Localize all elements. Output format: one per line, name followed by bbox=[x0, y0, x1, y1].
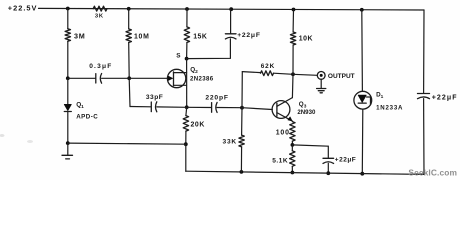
wire: Q1 cathode to ground junction bbox=[67, 112, 69, 144]
node: supply junction column2 bbox=[127, 7, 131, 11]
capacitor 33pF bbox=[146, 94, 163, 112]
resistor 62K bbox=[261, 63, 276, 76]
capacitor 0.3uF bbox=[89, 63, 112, 83]
wire: D1 column rail to diode bbox=[361, 10, 364, 92]
svg-text:2N2386: 2N2386 bbox=[190, 76, 214, 83]
node: 20K bottom / ground row junction bbox=[184, 142, 188, 146]
output jack terminal bbox=[317, 72, 354, 81]
wire: source node down past Q2 to 33pF row bbox=[186, 59, 188, 108]
capacitor 220pF bbox=[205, 95, 228, 113]
wire: C3 down to bottom rail corner bbox=[423, 99, 425, 175]
diode D1 1N233A bbox=[354, 91, 403, 111]
resistor 3M bbox=[65, 29, 85, 42]
svg-text:+22μF: +22μF bbox=[432, 95, 458, 102]
resistor 33K bbox=[223, 135, 245, 147]
svg-text:33pF: 33pF bbox=[146, 94, 163, 101]
wire: +22.5V top supply rail bbox=[39, 8, 425, 10]
resistor 5.1K bbox=[272, 151, 295, 167]
svg-text:10M: 10M bbox=[134, 34, 150, 41]
wire: base row (junction to Q3 base) bbox=[242, 108, 272, 110]
wire: 33pF to column3 junction bbox=[157, 106, 212, 109]
wire: junction to output jack bbox=[293, 74, 317, 75]
wire: column3 down to bottom rail corner bbox=[185, 144, 187, 171]
ground (output jack) bbox=[317, 79, 326, 93]
node: supply junction D1 bbox=[360, 8, 364, 12]
svg-text:20K: 20K bbox=[191, 121, 205, 128]
wire: collector up to junction bbox=[291, 74, 294, 97]
wire: column1 junction down to photodiode Q1 bbox=[67, 78, 69, 104]
wire: bottom ground rail bbox=[186, 171, 424, 174]
node: 5.1K bottom rail junction bbox=[291, 171, 295, 175]
ground (main, bottom left) bbox=[62, 143, 73, 159]
node: collector / output junction bbox=[291, 72, 295, 76]
wire: 33pF row left segment bbox=[130, 106, 151, 108]
node: D1 bottom rail junction bbox=[360, 172, 364, 176]
wire: 62K to collector junction bbox=[274, 73, 294, 74]
label +22.5V bbox=[8, 4, 38, 13]
svg-text:2N930: 2N930 bbox=[297, 109, 316, 116]
svg-text:+22.5V: +22.5V bbox=[8, 4, 38, 13]
wire: C2 to bottom rail bbox=[327, 163, 329, 173]
svg-text:3K: 3K bbox=[95, 13, 104, 19]
wire: column2 down to 33pF row elbow bbox=[128, 78, 131, 106]
capacitor C3 +22uF (supply filter) bbox=[418, 94, 458, 102]
node: source node S bbox=[185, 57, 189, 61]
label S (source) bbox=[176, 53, 181, 60]
wire: 220pF to 62K column junction bbox=[217, 107, 242, 109]
resistor 15K bbox=[184, 27, 207, 43]
scan edge artifacts bbox=[0, 134, 33, 143]
wire: column3 rail to 15K bbox=[186, 9, 188, 27]
node: supply junction column1 bbox=[66, 7, 70, 11]
wire: D1 to bottom rail bbox=[361, 109, 364, 174]
wire: column3 15K to source node bbox=[186, 43, 188, 59]
svg-text:Q1: Q1 bbox=[76, 102, 84, 111]
svg-text:62K: 62K bbox=[261, 63, 275, 70]
wire: 62K column vertical (elbow to junction) bbox=[241, 72, 243, 108]
wire: 10K column rail to resistor bbox=[292, 10, 294, 33]
wire: column2 10M down to gate row bbox=[128, 43, 131, 79]
svg-text:1N233A: 1N233A bbox=[376, 104, 403, 111]
wire: ground row (left ground to 20K bottom) bbox=[68, 143, 186, 144]
capacitor C2 +22uF (emitter bypass) bbox=[323, 156, 356, 163]
resistor 10M bbox=[126, 29, 150, 43]
wire: column1 3M to gate-row junction bbox=[67, 41, 69, 78]
svg-text:3M: 3M bbox=[74, 32, 86, 41]
resistor 3K (in supply rail) bbox=[93, 6, 107, 19]
wire: base junction down to 33K bbox=[241, 108, 243, 135]
node: emitter bypass junction bbox=[291, 143, 295, 147]
svg-text:0.3μF: 0.3μF bbox=[89, 63, 112, 70]
wire: 20K to ground-row junction bbox=[185, 131, 187, 144]
svg-text:APD-C: APD-C bbox=[76, 113, 98, 120]
svg-text:33K: 33K bbox=[223, 138, 238, 145]
wire: 62K row left stub bbox=[242, 72, 260, 73]
svg-text:D1: D1 bbox=[376, 92, 384, 100]
svg-text:+22μF: +22μF bbox=[335, 156, 356, 163]
wire: emitter to 100 ohm bbox=[291, 120, 293, 123]
svg-text:SeekIC.com: SeekIC.com bbox=[408, 167, 457, 177]
wire: 33K to bottom rail bbox=[240, 147, 242, 172]
node: supply junction cap C1 bbox=[229, 7, 233, 11]
svg-text:15K: 15K bbox=[193, 33, 207, 40]
wire: 33pF row junction to 20K bbox=[185, 107, 188, 115]
node: 62K column / base row junction bbox=[240, 106, 244, 110]
svg-text:10K: 10K bbox=[299, 36, 313, 43]
svg-text:+22μF: +22μF bbox=[237, 32, 261, 39]
wire: right column from rail corner down to C3 bbox=[423, 10, 425, 93]
node: 33K bottom rail junction bbox=[240, 170, 244, 174]
svg-text:5.1K: 5.1K bbox=[272, 157, 288, 164]
watermark SeekIC.com bbox=[408, 167, 457, 177]
capacitor C1 +22uF (top) bbox=[225, 9, 260, 39]
svg-text:Q2: Q2 bbox=[190, 67, 198, 75]
node: gate row / column1 junction bbox=[66, 76, 70, 80]
node: C2 bottom rail junction bbox=[326, 171, 330, 175]
node: gate row / column2 junction bbox=[127, 76, 131, 80]
svg-text:S: S bbox=[176, 53, 181, 60]
transistor Q3 2N930 (NPN) bbox=[272, 98, 316, 121]
wire: gate row left segment (junction to 0.3uF) bbox=[68, 77, 96, 79]
wire: bypass junction to C2 bbox=[292, 145, 328, 158]
resistor 10K bbox=[290, 32, 313, 45]
resistor 100 bbox=[276, 122, 295, 142]
wire: junction to 5.1K bbox=[291, 145, 293, 151]
node: column3 / 33pF row junction bbox=[185, 105, 189, 109]
node: supply junction 10K bbox=[292, 8, 296, 12]
wire: 100 ohm to emitter-bypass junction bbox=[291, 141, 293, 145]
node: ground junction bbox=[66, 141, 70, 145]
svg-text:OUTPUT: OUTPUT bbox=[328, 73, 355, 80]
resistor 20K bbox=[183, 116, 205, 132]
svg-text:220pF: 220pF bbox=[205, 95, 228, 102]
wire: 10K to collector junction bbox=[292, 45, 294, 74]
wire: column2 from rail to 10M bbox=[128, 9, 130, 29]
transistor Q2 2N2386 (p-channel JFET) bbox=[167, 67, 213, 88]
wire: source node to C1 bottom bbox=[187, 39, 231, 59]
wire: column1 from rail to 3M bbox=[67, 8, 69, 28]
node: supply junction column3 bbox=[185, 7, 189, 11]
wire: 5.1K to bottom rail bbox=[291, 166, 293, 172]
svg-text:100: 100 bbox=[276, 130, 290, 137]
wire: gate row right segment (0.3uF to Q2 gate) bbox=[102, 77, 169, 79]
photodiode Q1 APD-C bbox=[64, 102, 98, 121]
